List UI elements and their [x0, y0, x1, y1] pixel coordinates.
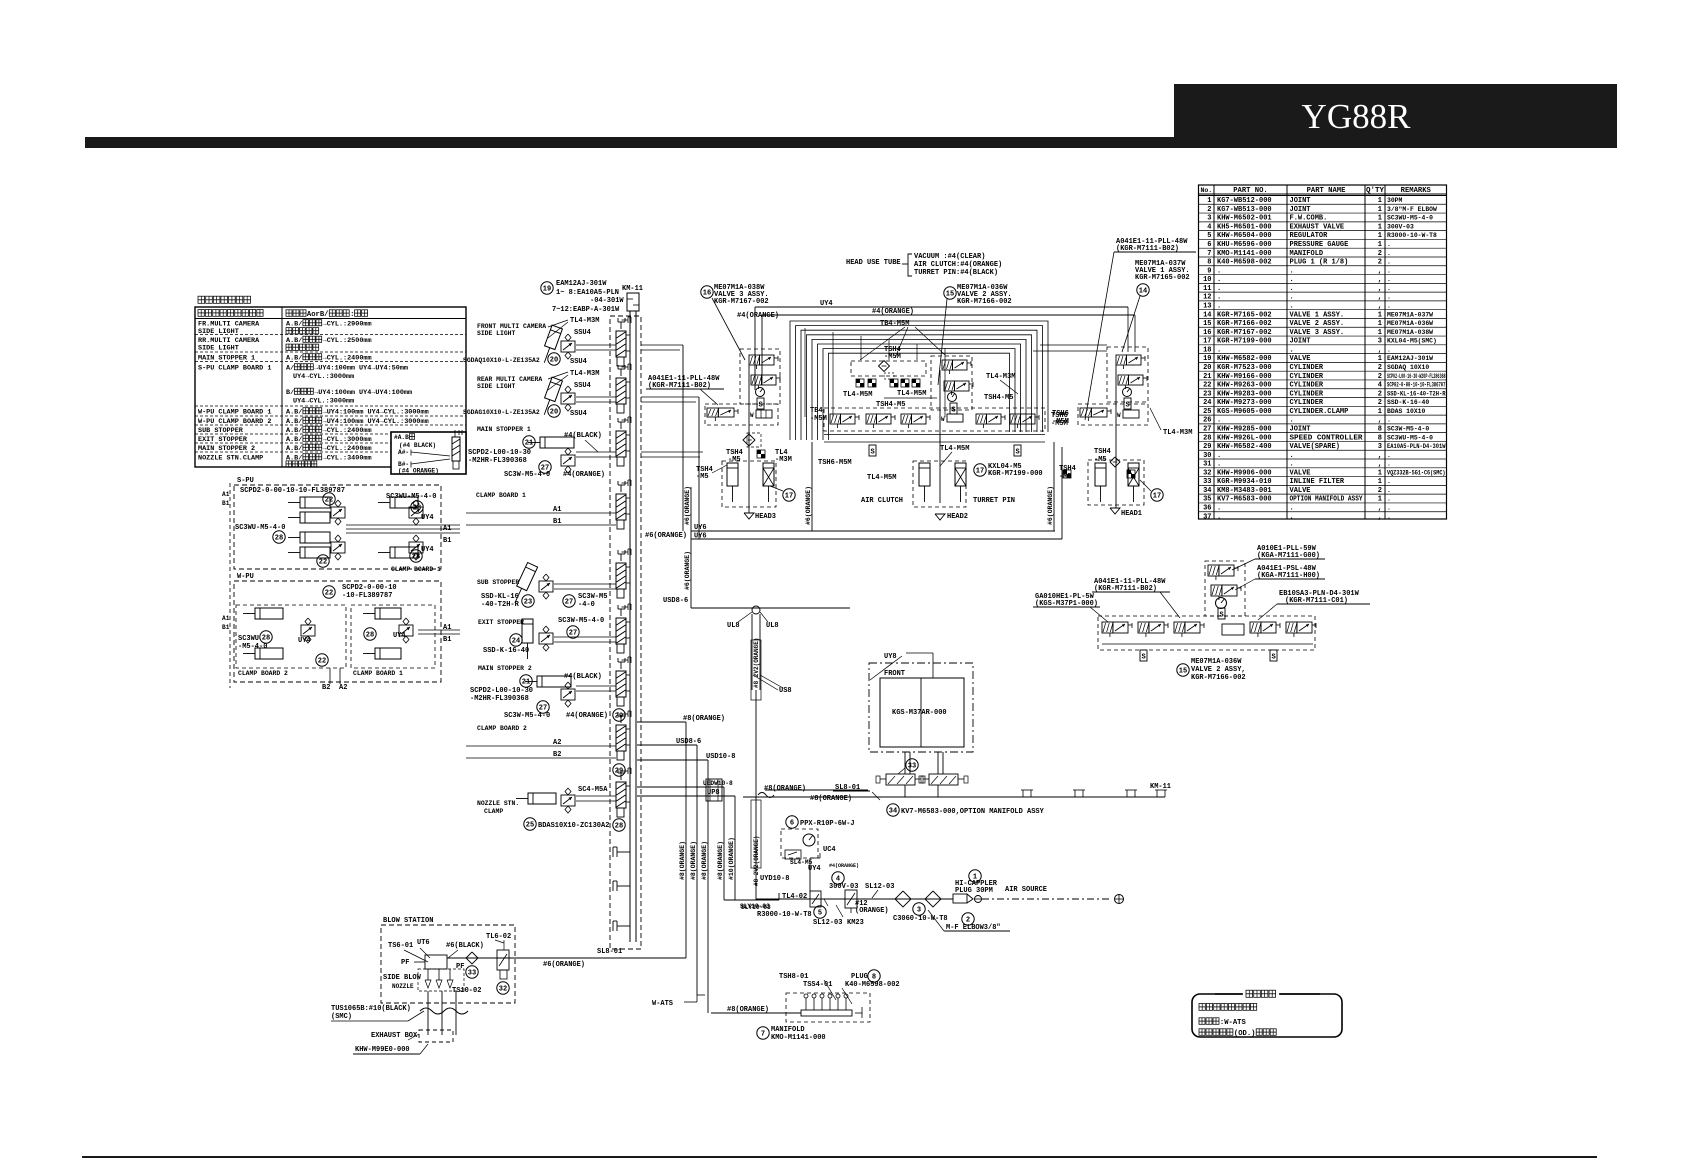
svg-text:PF: PF: [401, 959, 409, 967]
wire main stopper 2 to bus: [576, 686, 625, 721]
svg-text:VALVE 1 ASSY.: VALVE 1 ASSY.: [1290, 311, 1345, 319]
svg-text:15: 15: [946, 290, 954, 298]
svg-text:.: .: [1387, 513, 1391, 520]
valve assy 3 speed ctrl: [757, 398, 764, 410]
svg-text:JOINT: JOINT: [1290, 425, 1311, 433]
trunk wire 1: [679, 722, 686, 958]
svg-text:#4(BLACK): #4(BLACK): [564, 432, 602, 440]
W-PU wires A1 B1: [330, 630, 460, 684]
svg-text:KM-11: KM-11: [622, 285, 643, 293]
svg-text:S: S: [1126, 402, 1130, 410]
svg-text:TL4-M5M: TL4-M5M: [940, 445, 969, 453]
bottom valve row box: [824, 408, 1045, 431]
svg-text:-M2HR-FL390368: -M2HR-FL390368: [470, 695, 529, 703]
joint 33 callout: [898, 759, 918, 774]
label GA010HE1: [1033, 593, 1108, 622]
blow filter diamond 33: [466, 952, 478, 978]
svg-text:VACUUM :#4(CLEAR): VACUUM :#4(CLEAR): [914, 253, 985, 261]
svg-text:→CYL.:2500mm: →CYL.:2500mm: [323, 337, 372, 345]
svg-text:2: 2: [1378, 373, 1382, 381]
svg-text:KHW-M9273-000: KHW-M9273-000: [1217, 399, 1272, 407]
svg-text:27: 27: [569, 629, 577, 637]
svg-text:A1: A1: [443, 624, 451, 632]
valve assy 2 enclosure: [931, 356, 972, 410]
top rule: [85, 137, 1174, 148]
title bar YG88R: [1174, 84, 1617, 148]
valve TL4-02: [782, 891, 821, 907]
label A041E1 top right: [1085, 238, 1196, 420]
svg-text:#4(ORANGE): #4(ORANGE): [563, 471, 605, 479]
svg-text:29: 29: [615, 712, 623, 720]
svg-text:27: 27: [1203, 425, 1211, 433]
label A041E1-PSL-48W: [1235, 565, 1325, 590]
svg-text:SSU4: SSU4: [574, 329, 591, 337]
trunk wire 4: [717, 787, 724, 900]
w-ats spur: [652, 995, 705, 1008]
svg-text:A#-|: A#-|: [398, 449, 413, 456]
svg-text:#4(BLACK): #4(BLACK): [564, 673, 602, 681]
svg-text:EXHAUST VALVE: EXHAUST VALVE: [1290, 223, 1345, 231]
filter diamond 1: [893, 891, 948, 923]
svg-text:25: 25: [526, 821, 534, 829]
svg-text:#6(ORANGE): #6(ORANGE): [684, 486, 691, 525]
svg-text:KGR-M7166-002: KGR-M7166-002: [1217, 320, 1272, 328]
svg-text:CYLINDER: CYLINDER: [1290, 364, 1324, 372]
svg-text:KHW-M926L-000: KHW-M926L-000: [1217, 434, 1272, 442]
head drops to uy6: [805, 436, 1062, 539]
svg-text:1: 1: [1378, 478, 1382, 486]
bus supply wire: [630, 311, 636, 942]
svg-text:→UY4:100mm UY4→CYL.:3000mm: →UY4:100mm UY4→CYL.:3000mm: [323, 409, 429, 417]
head1 cylinder box: [1088, 460, 1144, 505]
W-PU clamp board 2 cylinders: [243, 608, 315, 659]
joint UP8: [706, 779, 722, 801]
svg-text:B2: B2: [322, 684, 330, 692]
svg-text:TL4-M5M: TL4-M5M: [843, 391, 872, 399]
svg-text:1: 1: [1207, 197, 1211, 205]
svg-text:SSU4: SSU4: [570, 410, 587, 418]
svg-text:OPTION MANIFOLD ASSY: OPTION MANIFOLD ASSY: [1290, 496, 1364, 504]
svg-text:.: .: [1217, 294, 1221, 302]
svg-text:35: 35: [1203, 496, 1211, 504]
svg-text:W-ATS: W-ATS: [652, 1000, 673, 1008]
svg-text:HEAD2: HEAD2: [947, 513, 968, 521]
svg-text:KGS-M37AR-000: KGS-M37AR-000: [892, 709, 947, 717]
svg-text:SC3W-M5-4-0: SC3W-M5-4-0: [1387, 425, 1429, 432]
svg-text:19: 19: [543, 285, 551, 293]
wire exit stopper to bus: [554, 637, 616, 642]
svg-text:2: 2: [1378, 364, 1382, 372]
svg-text:MANIFOLD: MANIFOLD: [1290, 250, 1324, 258]
svg-text:(#4 BLACK): (#4 BLACK): [399, 442, 436, 449]
svg-text:3/8"M-F ELBOW: 3/8"M-F ELBOW: [1387, 206, 1437, 213]
svg-text:17: 17: [1203, 338, 1211, 346]
svg-text:SC3W-M5: SC3W-M5: [578, 593, 607, 601]
svg-text:EAM12AJ-301W: EAM12AJ-301W: [556, 280, 607, 288]
trunk wire 5: [728, 796, 735, 900]
svg-text:.: .: [1217, 285, 1221, 293]
svg-text:1~ 8:EA10A5-PLN: 1~ 8:EA10A5-PLN: [556, 289, 619, 297]
svg-text:TL4-M5M: TL4-M5M: [897, 390, 926, 398]
svg-text:A/: A/: [286, 365, 294, 373]
svg-text:UT6: UT6: [417, 939, 430, 947]
svg-text:KGR-M7167-002: KGR-M7167-002: [1217, 329, 1272, 337]
svg-text:A.B/: A.B/: [286, 409, 302, 417]
svg-text:UY4→CYL.:3000mm: UY4→CYL.:3000mm: [293, 373, 354, 381]
main stopper 1 cylinder 21: [477, 426, 574, 448]
svg-text:MANIFOLD: MANIFOLD: [771, 1026, 805, 1034]
svg-text:W: W: [941, 416, 945, 423]
svg-text:1: 1: [1378, 215, 1382, 223]
svg-text:.: .: [1217, 505, 1221, 513]
manifold comb: [786, 993, 870, 1022]
orange labels rail: [764, 785, 852, 803]
svg-text:28: 28: [366, 631, 374, 639]
svg-text:Q'TY: Q'TY: [1366, 187, 1385, 195]
svg-text:CYLINDER: CYLINDER: [1290, 373, 1324, 381]
svg-text:.: .: [1217, 267, 1221, 275]
svg-text:,: ,: [1378, 513, 1382, 521]
svg-text:1: 1: [1378, 320, 1382, 328]
svg-text:SSD-KL-16-40-T2H-R: SSD-KL-16-40-T2H-R: [1387, 390, 1446, 397]
svg-text:1: 1: [1378, 496, 1382, 504]
svg-text:4: 4: [1378, 382, 1382, 390]
svg-text:2: 2: [1378, 399, 1382, 407]
svg-text:1: 1: [1378, 408, 1382, 416]
svg-text:W: W: [1117, 412, 1121, 419]
bus stub joint 3: [613, 921, 630, 931]
svg-text:SC3WU-M5-4-0: SC3WU-M5-4-0: [386, 493, 436, 501]
svg-text:23: 23: [1203, 390, 1211, 398]
svg-text:REMARKS: REMARKS: [1401, 187, 1432, 195]
svg-text:,: ,: [1378, 267, 1382, 275]
S-PU cylinders left: [288, 497, 330, 558]
valve exit stopper 27: [539, 617, 604, 651]
valve SSU4 front camera: [548, 317, 599, 366]
svg-text::W-ATS: :W-ATS: [1220, 1019, 1247, 1027]
label A010E1-PLL-59W: [1232, 545, 1325, 570]
svg-text:.: .: [1387, 241, 1391, 248]
svg-text:SUB STOPPER: SUB STOPPER: [477, 579, 519, 586]
svg-text:-M3M: -M3M: [775, 456, 792, 464]
svg-text:PART NO.: PART NO.: [1233, 187, 1268, 195]
hose table rows: [198, 320, 429, 467]
svg-text:28: 28: [615, 822, 623, 830]
svg-text:2: 2: [1378, 250, 1382, 258]
svg-text:-M5M: -M5M: [810, 415, 827, 423]
svg-text:A1: A1: [222, 615, 230, 622]
svg-text:UY4: UY4: [298, 637, 311, 645]
svg-text:.: .: [1387, 276, 1391, 283]
svg-text:A.B/: A.B/: [286, 445, 302, 453]
svg-text:SCPD2-L00-10-30: SCPD2-L00-10-30: [468, 449, 531, 457]
svg-text:5: 5: [818, 909, 822, 917]
exhaust valve 300V-03 callout 4: [829, 872, 858, 913]
valve KM-11 top: [622, 285, 643, 311]
svg-text:#A.B: #A.B: [394, 434, 409, 441]
us8 leaders: [753, 675, 792, 695]
W-PU clamp manifold group: [234, 573, 441, 682]
svg-text:YG88R: YG88R: [1302, 97, 1412, 136]
valve assy 2 center block: [940, 360, 973, 442]
svg-text:#4(ORANGE): #4(ORANGE): [566, 712, 608, 720]
valve assy 3 mid valve: [751, 375, 780, 389]
svg-text:HEAD1: HEAD1: [1121, 510, 1142, 518]
svg-text:CYLINDER: CYLINDER: [1290, 399, 1324, 407]
svg-text:3: 3: [1207, 215, 1211, 223]
svg-text:W-PU: W-PU: [237, 573, 254, 581]
svg-text:→CYL.:3400mm: →CYL.:3400mm: [323, 455, 372, 463]
valve assy 1 valves: [1080, 355, 1147, 508]
label A041E1 left: [646, 375, 724, 405]
mf elbow callout 2: [928, 910, 1010, 932]
svg-text:CLAMP BOARD 2: CLAMP BOARD 2: [238, 670, 288, 677]
svg-text:TS6-01: TS6-01: [388, 942, 413, 950]
svg-text:30: 30: [1203, 452, 1211, 460]
svg-text:SSD-KL-16: SSD-KL-16: [481, 593, 519, 601]
svg-text:KHW-M9285-000: KHW-M9285-000: [1217, 425, 1272, 433]
svg-text:29: 29: [615, 767, 623, 775]
svg-text:23: 23: [524, 598, 532, 606]
svg-text:CLAMP BOARD 1: CLAMP BOARD 1: [391, 566, 441, 573]
svg-text:SC3W-M5-4-0: SC3W-M5-4-0: [504, 712, 550, 720]
svg-text:34: 34: [1203, 487, 1211, 495]
svg-text:.: .: [1387, 452, 1391, 459]
bus label SL8-01: [597, 948, 622, 956]
trunk verticals left of heads: [683, 345, 699, 608]
svg-text:KHW-M9166-000: KHW-M9166-000: [1217, 373, 1272, 381]
svg-text:28: 28: [1203, 434, 1211, 442]
svg-text:UY4: UY4: [393, 632, 406, 640]
bottom rule: [82, 1156, 1597, 1158]
svg-text:TL4-M3M: TL4-M3M: [570, 370, 599, 378]
svg-text:.: .: [1217, 513, 1221, 521]
rail joints: [1021, 783, 1171, 797]
head2 ground: [935, 513, 968, 521]
svg-text:TSH4: TSH4: [1059, 465, 1076, 473]
svg-text:.: .: [1290, 267, 1294, 275]
svg-text:SPEED CONTROLLER: SPEED CONTROLLER: [1290, 434, 1364, 442]
sly bracket: [724, 893, 779, 911]
svg-text:KHW-M99E0-000: KHW-M99E0-000: [355, 1046, 410, 1054]
port legend valve symbol: [411, 430, 462, 469]
tsh4-m5m diamond: [879, 346, 901, 379]
svg-text:.: .: [1290, 276, 1294, 284]
svg-text:B/: B/: [286, 389, 294, 397]
svg-text:,: ,: [1378, 417, 1382, 425]
svg-text:TSS4-01: TSS4-01: [803, 981, 832, 989]
air line: [756, 898, 953, 900]
svg-text:,: ,: [1378, 452, 1382, 460]
svg-text:(SMC): (SMC): [331, 1013, 352, 1021]
svg-text:KGS-M9605-000: KGS-M9605-000: [1217, 408, 1272, 416]
rear multi camera cylinder 20: [477, 376, 562, 417]
wire sub stopper to bus: [554, 584, 616, 589]
svg-text::: :: [350, 311, 354, 319]
svg-text:,: ,: [1378, 303, 1382, 311]
svg-text:15: 15: [1203, 320, 1211, 328]
wire labels bus outlets: [676, 715, 735, 797]
svg-text:SGDAQ 10X10: SGDAQ 10X10: [1387, 364, 1429, 371]
option manifold assy callout 34: [887, 804, 1045, 816]
S-PU cylinders right: [378, 497, 418, 558]
valve EAM12AJ-301W callout 19: [541, 280, 625, 314]
svg-text:21: 21: [1203, 373, 1211, 381]
svg-text:NOZZLE STN.CLAMP: NOZZLE STN.CLAMP: [198, 455, 263, 463]
svg-text:11: 11: [1203, 285, 1211, 293]
svg-text:KGR-M7199-000: KGR-M7199-000: [1217, 338, 1272, 346]
svg-text:SSU4: SSU4: [570, 358, 587, 366]
svg-text:#10(ORANGE): #10(ORANGE): [728, 837, 735, 880]
svg-text:#8(ORANGE): #8(ORANGE): [679, 841, 686, 880]
S-PU valves left: [331, 500, 345, 560]
svg-text:37: 37: [1203, 513, 1211, 521]
svg-text:-4-0: -4-0: [578, 601, 595, 609]
ppx switch box: [781, 829, 818, 866]
svg-text:SSU4: SSU4: [574, 382, 591, 390]
svg-text:28: 28: [412, 553, 420, 561]
svg-text:TURRET PIN: TURRET PIN: [973, 497, 1015, 505]
svg-text:9: 9: [1207, 267, 1211, 275]
svg-text:33: 33: [468, 969, 476, 977]
svg-text:#8(ORANGE): #8(ORANGE): [690, 841, 697, 880]
svg-text:R3000-10-W-T8: R3000-10-W-T8: [757, 911, 812, 919]
svg-text:SC3WU: SC3WU: [238, 635, 259, 643]
blow station box: [381, 917, 515, 1003]
svg-text:17: 17: [976, 467, 984, 475]
svg-text:10: 10: [1203, 276, 1211, 284]
head3 joint 17: [770, 486, 795, 501]
svg-text:-04-301W: -04-301W: [590, 297, 624, 305]
svg-text:KV7-M6583-000: KV7-M6583-000: [1217, 496, 1272, 504]
svg-text:PRESSURE GAUGE: PRESSURE GAUGE: [1290, 241, 1349, 249]
svg-text:KGR-M7199-000: KGR-M7199-000: [988, 470, 1043, 478]
head1 ground: [1110, 508, 1142, 518]
svg-text:-40-T2H-R: -40-T2H-R: [481, 601, 520, 609]
svg-text:.: .: [1217, 452, 1221, 460]
svg-text:UY4→CYL.:3000mm: UY4→CYL.:3000mm: [293, 398, 354, 406]
svg-text:CLAMP BOARD 1: CLAMP BOARD 1: [353, 670, 403, 677]
svg-text:1: 1: [1378, 329, 1382, 337]
svg-text:KGR-M7167-002: KGR-M7167-002: [714, 298, 769, 306]
svg-text:3: 3: [917, 906, 921, 914]
svg-text:.: .: [1387, 285, 1391, 292]
svg-text:,: ,: [1378, 505, 1382, 513]
svg-text:2: 2: [1378, 390, 1382, 398]
svg-text:TL4-M3M: TL4-M3M: [570, 317, 599, 325]
svg-text:TSH8-01: TSH8-01: [779, 973, 808, 981]
sl8-01 rail: [743, 784, 1165, 800]
svg-text:.: .: [1290, 461, 1294, 469]
svg-text:No.: No.: [1201, 187, 1213, 194]
svg-text:MAIN STOPPER 2: MAIN STOPPER 2: [478, 665, 532, 672]
svg-text:.: .: [1217, 303, 1221, 311]
svg-text:16: 16: [703, 289, 711, 297]
svg-text:-M5M: -M5M: [1052, 418, 1069, 426]
svg-text:-M5: -M5: [696, 473, 709, 481]
svg-text:→UY4:100mm UY4→UY4:100mm: →UY4:100mm UY4→UY4:100mm: [314, 389, 412, 397]
svg-text:SIDE LIGHT: SIDE LIGHT: [477, 383, 516, 390]
svg-text:TSH4-M5: TSH4-M5: [876, 401, 905, 409]
svg-text:.: .: [1290, 303, 1294, 311]
bus station 8: [616, 711, 631, 760]
svg-text:VALVE 3 ASSY.: VALVE 3 ASSY.: [1290, 329, 1345, 337]
svg-text:21: 21: [525, 439, 533, 447]
svg-text:PART NAME: PART NAME: [1307, 187, 1347, 195]
svg-text:REGULATOR: REGULATOR: [1290, 232, 1329, 240]
svg-text:SIDE BLOW: SIDE BLOW: [383, 974, 422, 982]
label 12 orange: [855, 900, 889, 915]
svg-text:HEAD3: HEAD3: [755, 513, 776, 521]
svg-text:.: .: [1387, 267, 1391, 274]
label SGDAQ10X10 front camera: [463, 353, 560, 365]
svg-text:S: S: [871, 449, 875, 457]
svg-text:HEAD USE TUBE: HEAD USE TUBE: [846, 259, 901, 267]
svg-text:FRONT MULTI CAMERA: FRONT MULTI CAMERA: [477, 323, 546, 330]
svg-text:13: 13: [1203, 303, 1211, 311]
svg-text:AIR CLUTCH:#4(ORANGE): AIR CLUTCH:#4(ORANGE): [914, 261, 1002, 269]
svg-text:PPX-R10P-6W-J: PPX-R10P-6W-J: [800, 820, 855, 828]
head3 main drop wire: [748, 365, 750, 513]
head use tube legend: [846, 253, 1002, 277]
row labels tsh4: [810, 394, 1068, 467]
svg-text:5: 5: [1207, 232, 1211, 240]
air source: [982, 886, 1124, 904]
svg-text:TL4-02: TL4-02: [782, 893, 807, 901]
svg-text:FRONT: FRONT: [884, 670, 905, 678]
svg-text:KM23: KM23: [847, 919, 864, 927]
svg-text:SCP02-0-00-10-10-FL386707: SCP02-0-00-10-10-FL386707: [1387, 382, 1446, 389]
svg-text:12: 12: [1203, 294, 1211, 302]
svg-text:1: 1: [1378, 223, 1382, 231]
svg-text:CLAMP: CLAMP: [484, 808, 503, 815]
svg-text:#6(ORANGE): #6(ORANGE): [543, 961, 585, 969]
svg-text:2: 2: [1378, 259, 1382, 267]
clamp board 1 feed A1 B1: [466, 492, 616, 526]
label SCPD2 main stopper 1: [468, 449, 605, 479]
svg-text:(#4 ORANGE): (#4 ORANGE): [398, 468, 439, 475]
exhaust box part label: [353, 1044, 428, 1054]
front box legs: [905, 752, 943, 797]
svg-text:18: 18: [1203, 346, 1211, 354]
front multi camera cylinder 20: [477, 323, 562, 365]
svg-text:W: W: [750, 412, 754, 419]
svg-text:#6(BLACK): #6(BLACK): [446, 942, 484, 950]
front station box: [869, 663, 973, 752]
blow feed wire: [515, 958, 686, 969]
svg-text:SLY10-03: SLY10-03: [741, 904, 771, 911]
regulator labels: [740, 899, 864, 927]
svg-text:S: S: [759, 402, 763, 410]
svg-text:EXIT STOPPER: EXIT STOPPER: [198, 436, 248, 444]
svg-text:2: 2: [1207, 206, 1211, 214]
svg-text:USD8-6: USD8-6: [663, 597, 688, 605]
svg-text:A1: A1: [222, 491, 230, 498]
svg-text:→CYL.:2900mm: →CYL.:2900mm: [323, 321, 372, 329]
svg-text:R3000-10-W-T8: R3000-10-W-T8: [1387, 232, 1437, 239]
svg-text:B1: B1: [222, 500, 230, 507]
svg-text:AorB/: AorB/: [307, 311, 329, 319]
svg-text:SGDAG10X10-L-ZE135A2: SGDAG10X10-L-ZE135A2: [463, 409, 540, 416]
head3 cylinder box: [722, 461, 776, 507]
svg-text:MAIN STOPPER 1: MAIN STOPPER 1: [198, 355, 255, 363]
svg-text:.: .: [1387, 294, 1391, 301]
S-PU wires: [346, 525, 460, 533]
svg-text:#8(ORANGE): #8(ORANGE): [701, 841, 708, 880]
svg-text:22: 22: [325, 496, 333, 504]
svg-text:KGR-M7166-002: KGR-M7166-002: [1191, 674, 1246, 682]
svg-text:16: 16: [1203, 329, 1211, 337]
